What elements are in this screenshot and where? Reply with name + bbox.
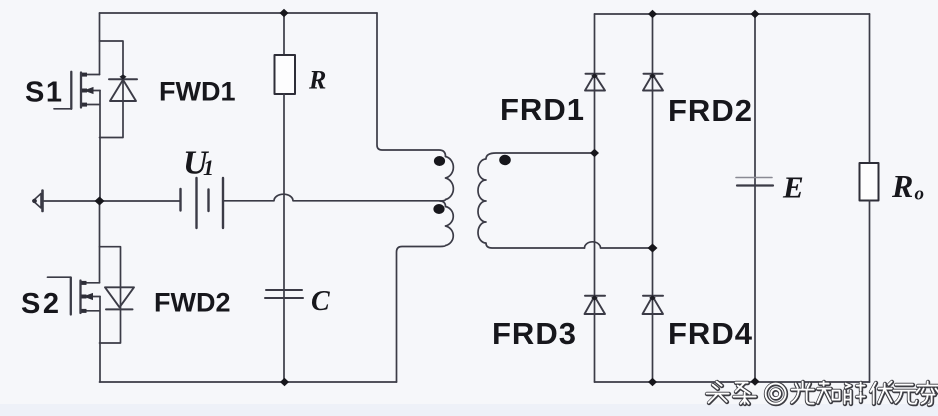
wire top-left rail	[100, 12, 378, 14]
transformer primary winding upper half	[440, 157, 453, 202]
transformer polarity dot primary lower	[433, 204, 444, 214]
svg-text:FWD1: FWD1	[159, 77, 236, 107]
node: bottom-left rail / C	[280, 378, 289, 386]
wire left vertical upper (rail to S1 drain)	[99, 13, 101, 75]
svg-text:1: 1	[203, 155, 214, 180]
node: top rail / FRD2	[648, 10, 657, 18]
node: secondary bottom / FRD4 branch	[648, 244, 658, 253]
diode FWD1	[100, 41, 138, 138]
wire S2 source/body down to bottom rail	[99, 297, 101, 383]
svg-text:FRD3: FRD3	[492, 316, 577, 351]
node: secondary top / FRD1	[590, 149, 599, 157]
label FWD1	[159, 77, 236, 107]
node: top-left rail / R	[280, 9, 289, 17]
svg-text:FRD2: FRD2	[668, 93, 753, 128]
transformer primary top branch	[377, 13, 446, 157]
label S1	[25, 77, 63, 109]
transformer primary winding lower half	[397, 207, 454, 383]
label FRD4	[668, 316, 753, 351]
label Ro	[891, 168, 924, 205]
diode FRD1	[585, 14, 605, 153]
diode FRD3	[585, 153, 606, 382]
label R	[308, 66, 326, 95]
label FRD1	[500, 92, 585, 127]
transformer polarity dot secondary	[499, 155, 511, 165]
transistor S2	[48, 277, 101, 314]
watermark 头条@光知能伏无穷	[707, 382, 938, 405]
transistor S1	[54, 72, 100, 109]
label U1	[183, 145, 214, 182]
capacitor C	[265, 290, 303, 298]
transformer secondary winding	[478, 153, 595, 248]
label C	[311, 286, 330, 317]
svg-text:C: C	[311, 286, 330, 317]
svg-text:S2: S2	[21, 288, 61, 320]
svg-text:R: R	[308, 66, 326, 95]
diode FWD2	[100, 247, 135, 343]
svg-text:FWD2: FWD2	[154, 288, 231, 318]
node: top rail / E	[751, 10, 760, 18]
svg-text:o: o	[915, 184, 925, 205]
wire top-right rail	[595, 13, 870, 15]
label FRD2	[668, 93, 753, 128]
svg-text:E: E	[782, 170, 804, 205]
capacitor E	[736, 14, 773, 382]
svg-text:S1: S1	[25, 77, 63, 109]
input terminal	[32, 191, 99, 212]
svg-text:FRD1: FRD1	[500, 92, 585, 127]
label FWD2	[154, 288, 231, 318]
node: bottom rail / FRD4	[648, 378, 657, 386]
wire S1 source/body to node A	[99, 91, 101, 202]
svg-text:R: R	[891, 168, 913, 204]
battery U1	[100, 178, 224, 228]
diode FRD4	[643, 248, 664, 382]
diode FRD2	[643, 14, 663, 248]
node A: input junction	[95, 197, 105, 206]
resistor Ro	[860, 14, 879, 382]
svg-text:FRD4: FRD4	[668, 316, 753, 351]
resistor R	[275, 13, 296, 382]
wire bottom-left rail	[100, 381, 397, 383]
node: bottom rail / E	[751, 377, 760, 385]
label FRD3	[492, 316, 577, 351]
label S2	[21, 288, 61, 320]
wire node A down to S2 drain	[99, 201, 101, 283]
wire U1 to transformer middle lead with hop over R-C line	[223, 194, 446, 206]
label E	[782, 170, 804, 205]
wire secondary bottom lead hop over FRD1 line	[585, 242, 653, 248]
wire bottom-right rail	[595, 381, 870, 383]
transformer polarity dot primary upper	[434, 156, 445, 166]
